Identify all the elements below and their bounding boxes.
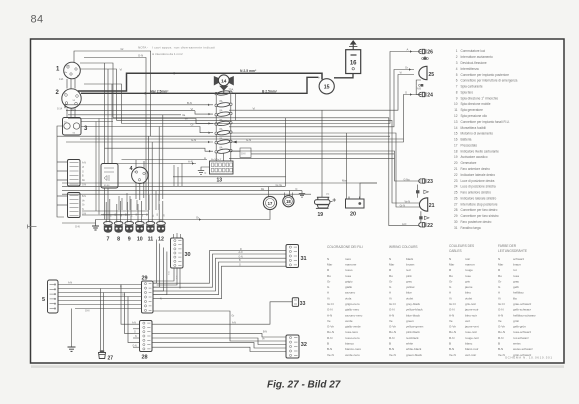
svg-text:blue-black: blue-black — [406, 313, 420, 317]
svg-text:braun: braun — [513, 262, 521, 266]
svg-text:rot: rot — [513, 268, 517, 272]
svg-text:LEITUNGSDRÄHTE: LEITUNGSDRÄHTE — [498, 249, 527, 253]
battery 16 — [346, 50, 361, 74]
flasher unit 4 — [130, 166, 149, 185]
fuse chain verticals — [223, 90, 225, 94]
wire G-N from lamp1 — [84, 58, 146, 193]
svg-text:black: black — [406, 257, 414, 261]
svg-text:COLORAZIONE DEI FILI: COLORAZIONE DEI FILI — [327, 245, 363, 249]
drops to connector 28 — [121, 285, 140, 325]
svg-text:14: 14 — [454, 126, 458, 130]
battery 16 feed arrow — [349, 40, 357, 50]
svg-text:Vi: Vi — [498, 296, 501, 300]
svg-text:8A: 8A — [220, 110, 223, 113]
svg-text:Spia direzione mobile: Spia direzione mobile — [461, 102, 491, 106]
svg-text:grau-schwarz: grau-schwarz — [513, 302, 532, 306]
leads from blocks above row — [118, 196, 120, 210]
svg-text:NOTA -: NOTA - — [138, 46, 148, 50]
fuse ladder link — [215, 134, 217, 141]
svg-text:R-N: R-N — [389, 336, 394, 340]
svg-text:white: white — [406, 342, 413, 346]
connector 28 — [140, 321, 153, 361]
svg-text:violet: violet — [465, 296, 472, 300]
headlamp 2 — [56, 89, 82, 112]
svg-text:A-N: A-N — [402, 223, 407, 226]
wire Gr-Ve y186.6 — [62, 186, 285, 188]
svg-text:Vi: Vi — [253, 106, 256, 110]
svg-text:R: R — [77, 75, 79, 78]
wire Va — [68, 114, 181, 116]
svg-text:Connettore per faro destro: Connettore per faro destro — [461, 208, 498, 212]
svg-text:yellow: yellow — [406, 285, 415, 289]
svg-text:yellow-black: yellow-black — [406, 308, 423, 312]
fuse F5 — [215, 128, 232, 135]
svg-text:grigio: grigio — [345, 279, 353, 283]
svg-text:green: green — [406, 319, 414, 323]
svg-text:Mar: Mar — [498, 262, 503, 266]
wire stubs headlamp 1 to headlamp 2 — [66, 79, 68, 89]
svg-text:jaune-noir: jaune-noir — [464, 308, 479, 312]
svg-text:26: 26 — [427, 50, 433, 56]
svg-text:14: 14 — [221, 78, 227, 84]
svg-text:16: 16 — [454, 138, 458, 142]
svg-text:33: 33 — [300, 301, 306, 307]
svg-text:B-N: B-N — [389, 347, 394, 351]
fuse out y158.6 — [229, 158, 395, 160]
bullet connector 10 — [135, 221, 144, 242]
svg-text:Gr: Gr — [327, 279, 330, 283]
svg-text:Gr: Gr — [389, 279, 392, 283]
svg-text:14A: 14A — [59, 78, 64, 81]
fuse F2 — [215, 100, 232, 107]
leads above connector 10 — [137, 204, 139, 222]
svg-text:hellblau-schwarz: hellblau-schwarz — [513, 313, 536, 317]
svg-text:A-N: A-N — [68, 281, 72, 284]
svg-text:gelb-schwarz: gelb-schwarz — [513, 308, 531, 312]
svg-text:Fanalino targa: Fanalino targa — [461, 226, 481, 230]
17 top stem — [268, 187, 270, 197]
svg-text:G: G — [82, 171, 84, 173]
relay box — [101, 164, 118, 189]
stubs above 30 — [173, 234, 175, 238]
svg-text:pink-black: pink-black — [406, 330, 420, 334]
svg-text:8A: 8A — [220, 147, 223, 150]
svg-text:Gr-N: Gr-N — [498, 302, 505, 306]
bullet connector 7 — [104, 221, 113, 242]
svg-text:Gr-N: Gr-N — [400, 204, 406, 207]
bullet connector 11 — [146, 221, 155, 242]
svg-text:bianco: bianco — [345, 342, 354, 346]
short rails above 12 — [173, 165, 175, 186]
svg-text:I cavi appos. non diversamente: I cavi appos. non diversamente indicati — [152, 46, 215, 50]
svg-text:violet: violet — [406, 296, 413, 300]
svg-text:Ro: Ro — [498, 274, 502, 278]
svg-text:rosa: rosa — [513, 274, 519, 278]
svg-text:G-Na: G-Na — [404, 178, 411, 181]
svg-text:Devioluci-flessione: Devioluci-flessione — [461, 61, 487, 65]
svg-text:8A: 8A — [220, 100, 223, 103]
leads above connector 7 — [105, 202, 107, 222]
svg-text:A: A — [204, 156, 206, 160]
svg-text:blanc-noir: blanc-noir — [465, 347, 478, 351]
svg-text:G-N: G-N — [85, 310, 90, 313]
svg-text:Ro-N: Ro-N — [449, 330, 456, 334]
fuse ladder link — [215, 95, 217, 104]
inline connector 21 to 22 — [419, 211, 429, 223]
connector 32 — [286, 335, 307, 358]
leads above connector 9 — [126, 202, 128, 222]
svg-text:rouge-noir: rouge-noir — [465, 336, 479, 340]
wires 29 to 31 — [153, 251, 286, 284]
svg-text:S-14: S-14 — [57, 108, 63, 111]
svg-text:31: 31 — [454, 226, 458, 230]
svg-text:B-N: B-N — [327, 347, 332, 351]
flasher 4 leads — [135, 160, 137, 168]
svg-text:brown: brown — [406, 262, 415, 266]
svg-text:A-N: A-N — [449, 313, 454, 317]
svg-text:verde: verde — [345, 319, 353, 323]
svg-text:13: 13 — [217, 178, 223, 184]
bundle wire y120.4 to 21 — [117, 120, 421, 203]
ground below bus — [92, 220, 99, 231]
svg-text:10: 10 — [137, 237, 143, 243]
drops connector 30 to 29 — [153, 240, 157, 284]
fuse chain stubs above 13 — [215, 153, 217, 161]
svg-text:Ve: Ve — [449, 319, 453, 323]
svg-text:SCHEMA N. 10.0610.501: SCHEMA N. 10.0610.501 — [505, 356, 553, 360]
svg-text:15: 15 — [454, 132, 458, 136]
ground below 5 — [68, 309, 76, 352]
headlamp unit 21 — [419, 198, 434, 211]
connector block 6 lower — [68, 193, 87, 218]
loop 25 to 24 — [416, 80, 423, 95]
svg-text:azzurro-nero: azzurro-nero — [345, 313, 363, 317]
fuse ladder link — [215, 116, 217, 123]
svg-text:4: 4 — [456, 67, 458, 71]
wire Ro y190.6 — [62, 190, 302, 192]
wire 15 to battery 16 — [334, 74, 353, 78]
svg-text:G-N: G-N — [138, 54, 143, 58]
svg-text:giallo-nero: giallo-nero — [345, 308, 360, 312]
svg-text:19: 19 — [318, 212, 324, 218]
svg-text:G: G — [134, 332, 136, 334]
svg-text:8: 8 — [456, 90, 458, 94]
svg-text:CABLES: CABLES — [449, 249, 462, 253]
fuse F4 — [215, 119, 232, 126]
wire B-N to fuse — [64, 104, 66, 108]
drop rail x235.7 — [235, 93, 237, 120]
svg-text:G-Ve: G-Ve — [389, 325, 396, 329]
svg-text:5: 5 — [42, 297, 45, 303]
svg-text:GN: GN — [163, 213, 165, 217]
svg-text:Ve-N: Ve-N — [327, 353, 334, 357]
svg-text:Mar: Mar — [342, 179, 347, 183]
wire B-N lamp2 bottom — [64, 105, 66, 109]
svg-text:Faro anteriore sinistro: Faro anteriore sinistro — [461, 191, 492, 195]
svg-text:A-N: A-N — [232, 321, 236, 324]
rail x99 — [98, 119, 100, 215]
component legend list — [454, 49, 518, 230]
svg-text:schwarz: schwarz — [513, 257, 525, 261]
wire y153.9 — [251, 153, 394, 155]
drop rail x317.7 to horn 19 — [321, 110, 323, 197]
pressure switch 17 — [263, 196, 276, 209]
svg-text:Ve: Ve — [327, 319, 331, 323]
svg-text:G-N: G-N — [133, 345, 138, 347]
svg-text:Interruttore avviamento: Interruttore avviamento — [461, 55, 494, 59]
svg-text:3: 3 — [456, 61, 458, 65]
svg-text:gris: gris — [465, 279, 470, 283]
rail x96 — [95, 122, 97, 212]
connector 23 — [419, 179, 433, 185]
svg-text:GN: GN — [142, 213, 144, 217]
svg-text:Ve-N: Ve-N — [405, 200, 411, 203]
svg-text:Commutatore luci: Commutatore luci — [461, 49, 486, 53]
svg-text:Ro: Ro — [327, 274, 331, 278]
svg-text:Ro-N: Ro-N — [389, 330, 396, 334]
svg-text:B-N: B-N — [449, 347, 454, 351]
wire G-N to fuse — [66, 141, 213, 143]
svg-text:G-Ve: G-Ve — [498, 325, 505, 329]
svg-text:pink: pink — [406, 274, 412, 278]
leads above connector 11 — [148, 202, 150, 222]
svg-text:Luce di posizione destra: Luce di posizione destra — [461, 179, 495, 183]
starter motor 15 — [318, 78, 334, 94]
wire N 2.5mm feed (thick) — [78, 73, 322, 91]
svg-text:rose: rose — [465, 274, 471, 278]
svg-text:red-black: red-black — [406, 336, 419, 340]
fuse out G-N y142 to 24 — [229, 95, 422, 143]
svg-text:G-Ve: G-Ve — [449, 325, 456, 329]
inline connector 23 to 21 — [416, 185, 428, 198]
connector 5 — [42, 280, 58, 313]
svg-text:R-N: R-N — [327, 336, 332, 340]
svg-text:Spia generatore: Spia generatore — [461, 108, 484, 112]
svg-text:G-N: G-N — [241, 153, 246, 156]
svg-text:R-N: R-N — [449, 336, 454, 340]
fuse out y133 to 21 — [229, 133, 420, 207]
svg-text:bleu: bleu — [465, 291, 471, 295]
svg-text:Gr: Gr — [82, 204, 85, 207]
svg-text:Mar: Mar — [389, 262, 394, 266]
svg-text:11: 11 — [148, 237, 154, 243]
fuse F7 — [215, 147, 232, 154]
svg-text:22: 22 — [427, 223, 433, 229]
wire Gr to 17 bottom — [161, 209, 270, 221]
wire y176.8 — [173, 176, 286, 178]
frame bottom scan shadow — [31, 365, 564, 368]
svg-text:G-N: G-N — [169, 271, 171, 275]
svg-text:24: 24 — [427, 93, 433, 99]
bullet connector 9 — [125, 221, 134, 242]
svg-text:Faro anteriore destro: Faro anteriore destro — [461, 167, 491, 171]
wire Mar/B 2.5mm feed (thick) — [81, 77, 319, 93]
svg-text:giallo: giallo — [345, 285, 352, 289]
wire A-N to 13 — [110, 163, 196, 165]
connector 29 — [142, 276, 154, 314]
svg-text:gelb-grün: gelb-grün — [513, 325, 526, 329]
svg-text:18: 18 — [286, 199, 291, 204]
bullet connector 8 — [114, 221, 123, 242]
svg-text:marron: marron — [465, 262, 475, 266]
headlamp unit 25 — [419, 66, 434, 79]
svg-text:A-N: A-N — [389, 313, 394, 317]
connector 30 — [171, 238, 191, 268]
svg-text:Ve-N: Ve-N — [498, 353, 505, 357]
svg-text:rot-schwarz: rot-schwarz — [513, 336, 529, 340]
svg-text:bleu-noir: bleu-noir — [465, 313, 477, 317]
generator 20 — [346, 197, 365, 218]
svg-text:13: 13 — [454, 120, 458, 124]
svg-text:Vi: Vi — [389, 296, 392, 300]
svg-text:Gr: Gr — [498, 279, 501, 283]
svg-text:12: 12 — [454, 114, 458, 118]
svg-text:Vi: Vi — [191, 107, 194, 111]
ground near 18 — [299, 191, 305, 198]
long drops to connectors 11-12 — [148, 136, 150, 202]
svg-text:Pressostato: Pressostato — [461, 143, 478, 147]
svg-text:24: 24 — [454, 185, 458, 189]
fusebox feed symbol 14 — [214, 75, 234, 91]
svg-text:Connettore per faro sinistro: Connettore per faro sinistro — [461, 214, 499, 218]
left vertical rail c — [84, 84, 122, 124]
svg-text:Spia direzione 1° rimorchio: Spia direzione 1° rimorchio — [461, 96, 499, 100]
inline connector below 26 — [422, 56, 429, 60]
svg-text:Indicatore livello carburante: Indicatore livello carburante — [461, 149, 500, 153]
svg-text:N: N — [327, 257, 329, 261]
colour code table body — [327, 257, 536, 357]
svg-text:viola: viola — [345, 296, 352, 300]
horn 19 — [315, 194, 336, 218]
battery 20 right lead — [360, 183, 377, 199]
svg-text:B-N: B-N — [498, 347, 503, 351]
svg-text:Gr-Ve: Gr-Ve — [276, 184, 283, 187]
wires connector 5 to 29 — [58, 284, 142, 286]
wire y148.2 to fuse — [105, 148, 214, 151]
svg-text:Ro-N: Ro-N — [327, 330, 334, 334]
svg-text:Interruttore stop posteriore: Interruttore stop posteriore — [461, 202, 498, 206]
svg-text:Mar: Mar — [449, 262, 454, 266]
wire Gr from lamp1 top — [74, 51, 151, 136]
svg-text:26: 26 — [454, 196, 458, 200]
svg-text:G-N: G-N — [389, 308, 395, 312]
svg-text:2: 2 — [456, 55, 458, 59]
svg-text:Indicatore laterale sinistro: Indicatore laterale sinistro — [461, 196, 497, 200]
wires 28 to 32 — [152, 333, 286, 337]
svg-text:84: 84 — [31, 14, 44, 26]
svg-text:A: A — [407, 48, 409, 52]
svg-text:27: 27 — [108, 356, 114, 362]
18 top stem — [289, 191, 291, 196]
svg-text:21: 21 — [429, 203, 435, 209]
fuse out Vi y110.2 to 25 — [229, 75, 414, 111]
svg-text:17: 17 — [454, 143, 458, 147]
svg-text:N: N — [296, 188, 298, 191]
svg-text:Avvisatore acustico: Avvisatore acustico — [461, 155, 488, 159]
svg-text:N: N — [389, 257, 391, 261]
svg-text:56-1: 56-1 — [71, 109, 76, 112]
svg-text:25: 25 — [429, 72, 435, 78]
svg-text:Gr-N: Gr-N — [327, 302, 334, 306]
svg-text:N 2.5 mm²: N 2.5 mm² — [240, 69, 257, 73]
svg-text:B: B — [498, 342, 500, 346]
svg-text:27: 27 — [454, 202, 458, 206]
svg-text:19: 19 — [454, 155, 458, 159]
svg-text:Gr: Gr — [405, 66, 408, 70]
svg-text:G-N: G-N — [449, 308, 455, 312]
svg-text:green-black: green-black — [406, 353, 422, 357]
left rail to blocks — [57, 126, 64, 217]
svg-text:10: 10 — [454, 102, 458, 106]
svg-text:B-N: B-N — [82, 196, 86, 198]
svg-text:20: 20 — [454, 161, 458, 165]
svg-text:B-N: B-N — [177, 275, 179, 279]
svg-text:verde-nero: verde-nero — [345, 353, 360, 357]
connector bus jumper — [96, 219, 162, 221]
svg-text:17: 17 — [268, 201, 273, 206]
left vertical rail b (Vi) — [80, 69, 117, 120]
wires down to stop switch 27 — [100, 289, 102, 351]
fuse F1 — [215, 90, 232, 96]
svg-text:azzurro: azzurro — [345, 291, 355, 295]
svg-text:R-N: R-N — [498, 336, 503, 340]
svg-text:Fig. 27 - Bild 27: Fig. 27 - Bild 27 — [267, 380, 341, 391]
svg-text:lila: lila — [513, 296, 517, 300]
svg-text:Morsettiera fusibili: Morsettiera fusibili — [461, 126, 487, 130]
connector 33 — [292, 298, 305, 307]
leads above connector 12 — [158, 204, 160, 222]
svg-text:Ro-N: Ro-N — [498, 330, 505, 334]
dip switch 3 — [63, 118, 89, 136]
wire A to 13 — [122, 159, 208, 161]
svg-text:blue: blue — [406, 291, 412, 295]
svg-text:B 2.5mm²: B 2.5mm² — [262, 89, 278, 93]
svg-text:rosso-nero: rosso-nero — [345, 336, 360, 340]
fuse out y151 to 23 — [229, 151, 421, 181]
ground at fuse connector 13 — [198, 167, 210, 175]
wire y139 — [80, 138, 404, 140]
svg-text:rosso: rosso — [345, 268, 353, 272]
diagram border frame — [31, 39, 565, 363]
svg-text:29: 29 — [454, 214, 458, 218]
wire 29 to 33 — [153, 311, 286, 341]
svg-text:nero: nero — [345, 257, 351, 261]
stop switch 27 — [99, 350, 114, 361]
fuse F6 — [215, 137, 232, 144]
registration tick left edge — [28, 225, 37, 229]
svg-text:Gr: Gr — [196, 216, 199, 220]
svg-text:Motorino di avviamento: Motorino di avviamento — [461, 132, 494, 136]
svg-text:18: 18 — [454, 149, 458, 153]
svg-text:Generatore: Generatore — [461, 161, 477, 165]
svg-text:N: N — [449, 257, 451, 261]
svg-text:A-N: A-N — [327, 313, 332, 317]
svg-text:N: N — [498, 257, 500, 261]
bundle wire y117.8 to 22 — [113, 118, 420, 226]
svg-text:G-N: G-N — [327, 308, 333, 312]
svg-text:8: 8 — [117, 237, 120, 243]
svg-text:grey: grey — [406, 279, 412, 283]
small G-N junction box — [240, 148, 251, 158]
svg-text:5: 5 — [456, 73, 458, 77]
svg-text:noir: noir — [465, 257, 470, 261]
wire Gr to fuse — [81, 127, 213, 133]
svg-text:9: 9 — [128, 237, 131, 243]
svg-text:red: red — [406, 268, 411, 272]
svg-text:15: 15 — [324, 85, 330, 91]
wire y136.2 — [57, 135, 390, 137]
connector 22 — [419, 223, 433, 229]
